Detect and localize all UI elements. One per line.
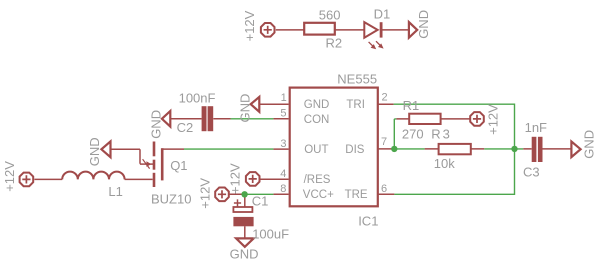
svg-text:GND: GND bbox=[581, 130, 596, 159]
svg-text:100uF: 100uF bbox=[252, 226, 289, 241]
svg-text:1nF: 1nF bbox=[525, 120, 547, 135]
svg-text:OUT: OUT bbox=[304, 144, 328, 156]
svg-text:1: 1 bbox=[281, 92, 287, 104]
svg-text:GND: GND bbox=[304, 99, 330, 111]
svg-text:NE555: NE555 bbox=[337, 72, 377, 87]
svg-text:3: 3 bbox=[280, 138, 286, 150]
svg-text:100nF: 100nF bbox=[179, 91, 216, 106]
svg-text:GND: GND bbox=[87, 137, 102, 166]
svg-text:GND: GND bbox=[230, 247, 259, 262]
svg-text:BUZ10: BUZ10 bbox=[151, 191, 191, 206]
svg-text:C2: C2 bbox=[177, 120, 194, 135]
svg-text:5: 5 bbox=[280, 108, 286, 120]
svg-text:560: 560 bbox=[319, 8, 341, 23]
svg-text:Q1: Q1 bbox=[170, 158, 187, 173]
svg-text:GND: GND bbox=[148, 110, 163, 139]
svg-text:C3: C3 bbox=[523, 165, 540, 180]
svg-text:8: 8 bbox=[280, 183, 286, 195]
svg-text:6: 6 bbox=[381, 183, 387, 195]
svg-text:VCC+: VCC+ bbox=[303, 189, 334, 201]
svg-text:+12V: +12V bbox=[227, 163, 242, 194]
svg-text:TRE: TRE bbox=[345, 189, 368, 201]
svg-text:R2: R2 bbox=[326, 36, 343, 51]
svg-text:/RES: /RES bbox=[304, 174, 331, 186]
svg-text:4: 4 bbox=[280, 168, 286, 180]
svg-text:DIS: DIS bbox=[345, 144, 365, 156]
svg-text:TRI: TRI bbox=[346, 99, 365, 111]
svg-text:+12V: +12V bbox=[485, 104, 500, 135]
svg-text:IC1: IC1 bbox=[358, 214, 378, 229]
svg-text:2: 2 bbox=[382, 92, 388, 104]
svg-text:+12V: +12V bbox=[242, 10, 257, 41]
svg-text:D1: D1 bbox=[374, 7, 391, 22]
svg-text:C1: C1 bbox=[252, 193, 269, 208]
svg-text:270: 270 bbox=[402, 126, 424, 141]
svg-text:L1: L1 bbox=[108, 184, 122, 199]
svg-text:GND: GND bbox=[237, 94, 252, 123]
svg-text:10k: 10k bbox=[434, 156, 455, 171]
svg-text:+12V: +12V bbox=[197, 178, 212, 209]
svg-text:7: 7 bbox=[381, 136, 387, 148]
svg-text:+12V: +12V bbox=[2, 161, 17, 192]
svg-text:R1: R1 bbox=[403, 98, 420, 113]
svg-text:CON: CON bbox=[304, 114, 330, 126]
svg-text:R3: R3 bbox=[431, 126, 452, 141]
svg-text:GND: GND bbox=[416, 10, 431, 39]
